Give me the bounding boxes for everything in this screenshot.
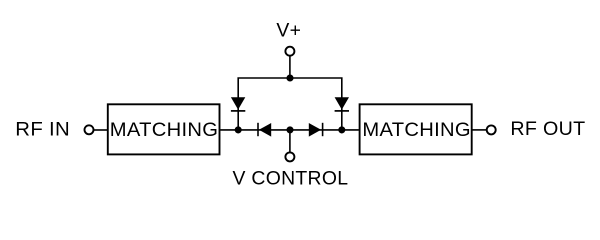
terminal RF IN (85, 125, 94, 134)
diode shunt left, cathode down (231, 97, 245, 111)
wire main RF line between matching boxes (220, 129, 359, 131)
svg-text:MATCHING: MATCHING (362, 119, 471, 141)
terminal V+ (285, 47, 294, 56)
svg-text:RF IN: RF IN (15, 119, 70, 140)
wire V+ terminal to rail (289, 56, 291, 79)
label MATCHING (right) (362, 119, 471, 141)
wire right matching box to RF OUT terminal (472, 129, 487, 131)
wire V+ rail (left branch up, across top, right branch down) (238, 78, 342, 130)
node junction V+ rail center (286, 74, 293, 81)
diode shunt right, cathode down (335, 97, 349, 111)
matching network block (left) (108, 104, 220, 154)
matching network block (right) (360, 104, 472, 154)
node junction right branch (338, 126, 345, 133)
svg-text:RF OUT: RF OUT (510, 118, 585, 140)
terminal V CONTROL (285, 152, 294, 161)
node junction V CONTROL (286, 126, 293, 133)
diode series right, cathode right (309, 123, 323, 137)
wire V CONTROL drop (289, 130, 291, 152)
label V+ (276, 19, 301, 41)
svg-text:MATCHING: MATCHING (110, 119, 219, 141)
wire RF IN terminal to left matching box (94, 129, 108, 131)
label V CONTROL (232, 167, 348, 189)
terminal RF OUT (487, 125, 496, 134)
label RF IN (15, 119, 70, 140)
node junction left branch (235, 126, 242, 133)
svg-text:V CONTROL: V CONTROL (232, 167, 348, 189)
svg-text:V+: V+ (276, 19, 301, 41)
label MATCHING (left) (110, 119, 219, 141)
label RF OUT (510, 118, 585, 140)
diode series left, cathode left (258, 123, 271, 137)
